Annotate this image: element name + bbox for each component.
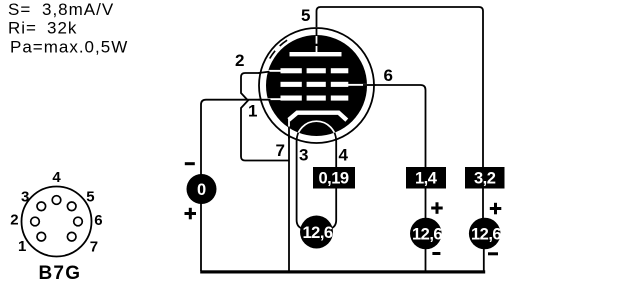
socket pin 2 xyxy=(31,217,40,226)
wire pin7 to ground rail xyxy=(288,126,290,271)
svg-text:5: 5 xyxy=(86,189,94,206)
svg-text:1: 1 xyxy=(248,102,257,121)
svg-text:12,6: 12,6 xyxy=(412,226,442,244)
polarity plus (anode) xyxy=(490,207,502,210)
socket pin 7 xyxy=(67,232,76,241)
polarity minus (screen) xyxy=(432,252,440,255)
svg-text:0: 0 xyxy=(197,181,206,199)
svg-text:0,19: 0,19 xyxy=(319,170,349,188)
svg-text:4: 4 xyxy=(339,146,349,165)
wire heater pin4 xyxy=(329,141,336,229)
socket B7G outline xyxy=(22,187,92,257)
wire anode meter to rail xyxy=(483,247,485,271)
tube V1 inner electrode disc xyxy=(266,35,367,136)
svg-text:B7G: B7G xyxy=(39,263,82,283)
pin2 lead ring crossing xyxy=(259,72,270,73)
socket pin 5 xyxy=(67,202,76,211)
svg-text:Pa=max.0,5W: Pa=max.0,5W xyxy=(10,37,128,56)
cathode dome inner (white part) xyxy=(297,121,337,141)
svg-text:3: 3 xyxy=(299,146,308,165)
pin5 lead ring crossing xyxy=(316,28,318,37)
anode plate xyxy=(290,52,342,56)
wire screen branch box to meter xyxy=(425,189,427,221)
svg-text:32k: 32k xyxy=(47,19,77,38)
beam plate chevron xyxy=(289,113,347,120)
meter heater current 0,19 xyxy=(313,167,355,189)
meter anode voltage 12,6 xyxy=(469,218,501,250)
svg-text:3,2: 3,2 xyxy=(474,170,496,188)
meter M1 grid voltage 0 xyxy=(187,174,217,204)
wire anode branch box to meter xyxy=(482,189,484,221)
svg-text:12,6: 12,6 xyxy=(471,226,501,244)
socket pin 1 xyxy=(37,232,46,241)
grid row 1 xyxy=(281,68,349,73)
svg-text:2: 2 xyxy=(10,212,18,229)
grid row 2 xyxy=(281,82,349,87)
pin1 lead inside (to grid row3) xyxy=(266,98,281,100)
wire pin1 to grid meter xyxy=(201,100,261,271)
meter screen voltage 12,6 xyxy=(410,218,442,250)
svg-text:2: 2 xyxy=(235,51,244,70)
meter screen current 1,4 xyxy=(406,167,446,189)
ring scan artifact arcs xyxy=(270,51,275,59)
svg-text:3: 3 xyxy=(21,189,29,206)
grid row 3 xyxy=(281,96,349,101)
socket pin 3 xyxy=(37,202,46,211)
wire pin5 to anode supply (top) xyxy=(317,7,484,168)
pin7 lead inside xyxy=(288,118,290,130)
meter heater voltage 12,6 xyxy=(300,216,333,249)
pin1 lead ring crossing xyxy=(259,99,271,101)
meter anode current 3,2 xyxy=(465,167,505,189)
tube V1 envelope xyxy=(259,28,374,143)
svg-text:4: 4 xyxy=(52,169,61,186)
pin7 lead ring crossing xyxy=(288,127,290,139)
socket pin 6 xyxy=(74,217,83,226)
wire heater pin3 xyxy=(297,141,304,229)
svg-text:1: 1 xyxy=(18,238,26,255)
svg-text:5: 5 xyxy=(301,6,310,25)
svg-text:6: 6 xyxy=(384,66,393,85)
svg-text:3,8mA/V: 3,8mA/V xyxy=(42,0,114,19)
svg-text:7: 7 xyxy=(276,141,285,160)
polarity minus (anode) xyxy=(488,252,498,255)
cathode dome outer (black part) xyxy=(297,121,337,141)
pin6 lead inside (to grid row2) xyxy=(348,84,367,86)
pin6 lead ring crossing xyxy=(363,84,376,86)
ground rail xyxy=(200,270,485,273)
pin2 lead inside (to grid row1) xyxy=(266,70,281,72)
polarity plus (screen) xyxy=(431,207,443,210)
svg-text:6: 6 xyxy=(94,212,102,229)
wire screen meter to rail xyxy=(425,247,427,271)
svg-text:S=: S= xyxy=(8,0,31,19)
polarity plus (grid) xyxy=(185,212,197,215)
svg-text:Ri=: Ri= xyxy=(8,19,37,38)
pin5 lead inside xyxy=(316,35,318,53)
socket pin 4 xyxy=(52,196,61,205)
wire pin2 down to pin7 net xyxy=(241,73,289,161)
wire pin6 to screen branch xyxy=(364,85,426,168)
svg-text:12,6: 12,6 xyxy=(303,224,333,242)
svg-text:7: 7 xyxy=(90,239,98,256)
polarity minus (grid) xyxy=(185,162,195,165)
svg-text:1,4: 1,4 xyxy=(415,170,438,188)
